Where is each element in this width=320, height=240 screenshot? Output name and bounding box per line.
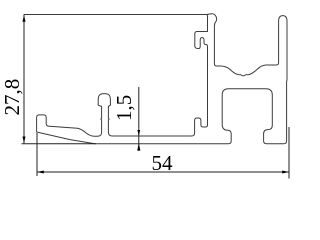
svg-text:54: 54 <box>152 151 174 175</box>
svg-text:27,8: 27,8 <box>0 79 24 116</box>
svg-text:1,5: 1,5 <box>112 95 136 121</box>
